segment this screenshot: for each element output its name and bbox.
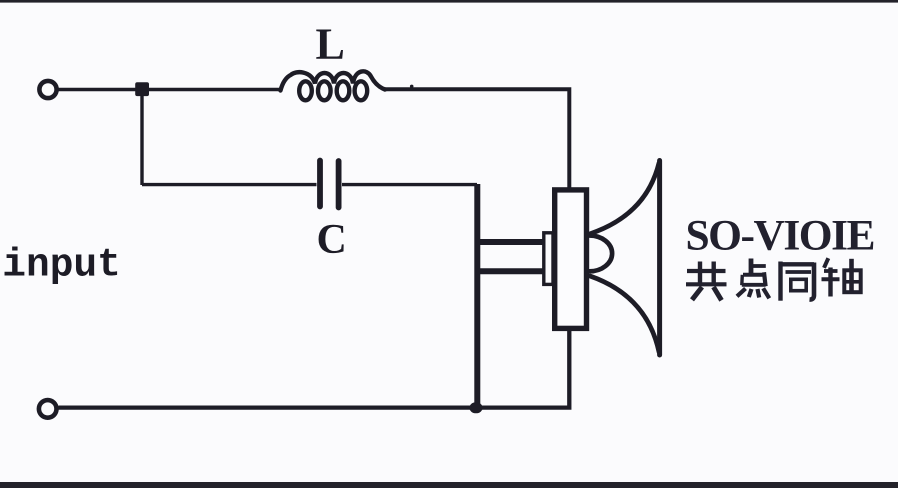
svg-text:input: input <box>2 243 121 288</box>
svg-text:C: C <box>317 217 347 263</box>
svg-text:SO-VIOIE: SO-VIOIE <box>686 211 876 259</box>
svg-text:L: L <box>316 20 345 69</box>
